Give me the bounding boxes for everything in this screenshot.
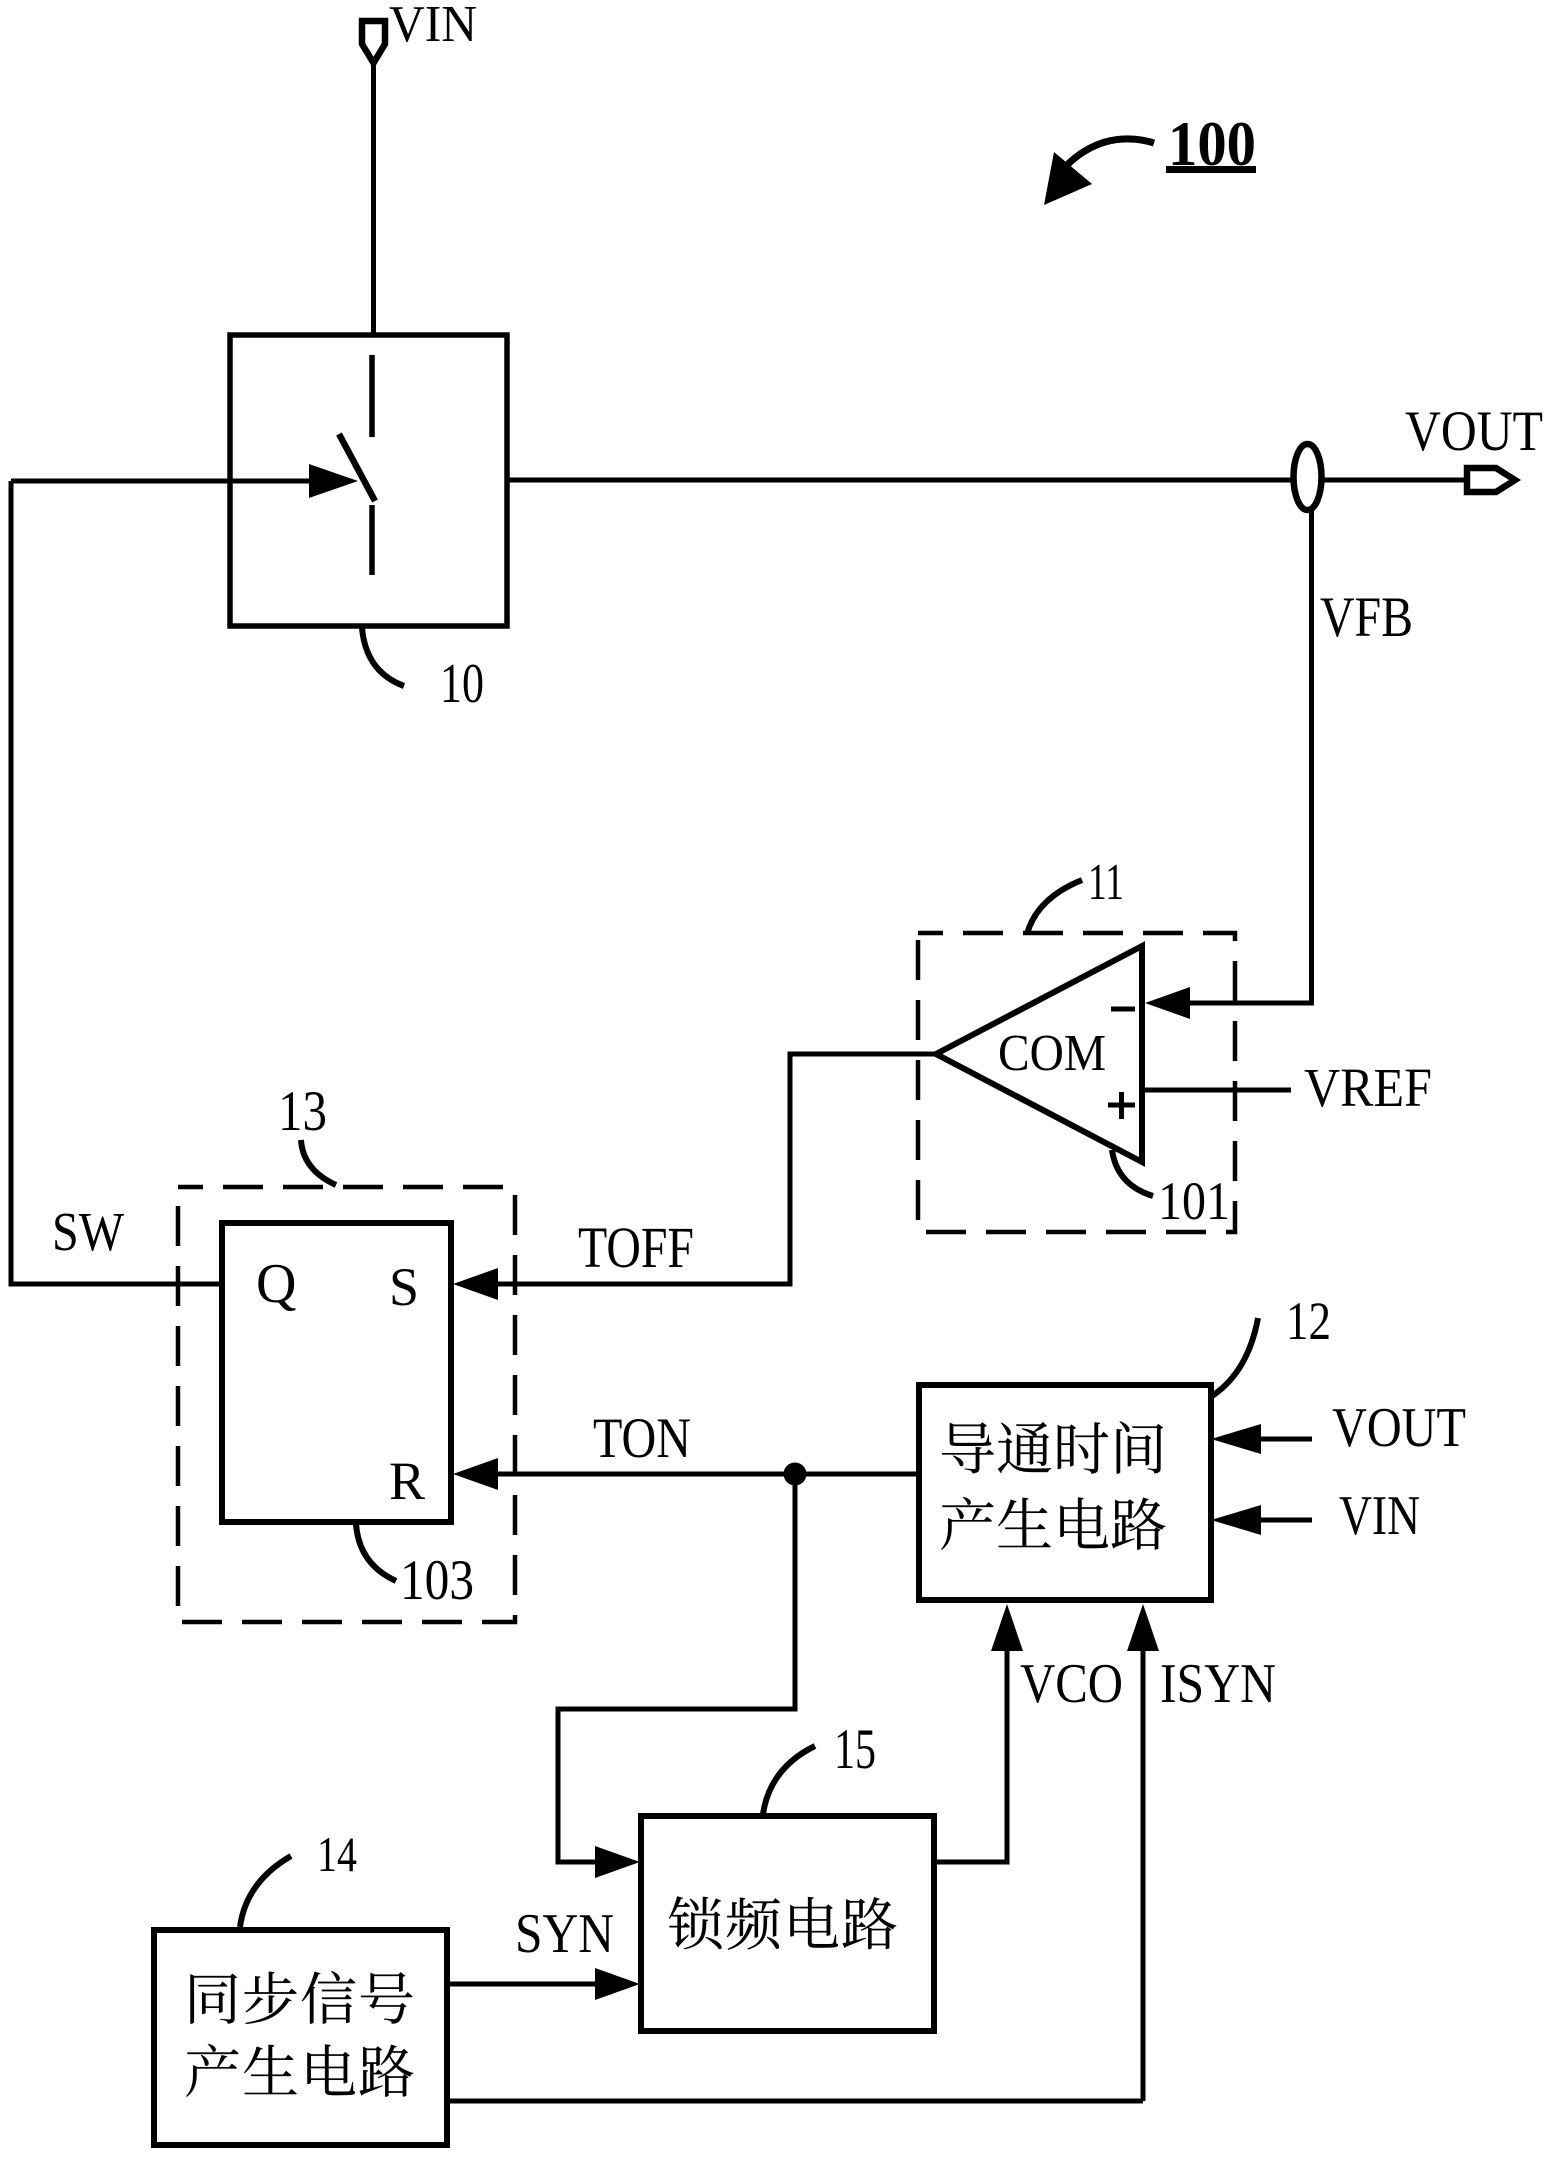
svg-text:R: R xyxy=(389,1451,425,1511)
text 锁频电路 xyxy=(669,1896,897,1950)
text line 同步信号 xyxy=(190,1971,412,2024)
arrowhead VOUT into 12 xyxy=(1211,1424,1261,1454)
arrowhead into minus input xyxy=(1145,987,1190,1019)
wire TON tap to 15 xyxy=(558,1474,795,1862)
junction dot on TON xyxy=(784,1463,807,1486)
minus sign xyxy=(1111,1007,1135,1012)
svg-text:SW: SW xyxy=(52,1201,124,1262)
label 101 leader curve xyxy=(1112,1150,1153,1196)
arrowhead into switch xyxy=(309,464,358,498)
svg-text:VREF: VREF xyxy=(1304,1057,1432,1118)
text line 产生电路 (block 12) xyxy=(941,1497,1165,1550)
wire node to VOUT terminal xyxy=(1321,478,1468,483)
svg-text:COM: COM xyxy=(998,1025,1106,1082)
svg-text:101: 101 xyxy=(1158,1171,1230,1231)
wire SYN from 14 to 15 xyxy=(447,1982,596,1987)
svg-text:VIN: VIN xyxy=(1339,1485,1420,1547)
arrowhead into R xyxy=(453,1458,498,1490)
wire ISYN vertical xyxy=(1141,1650,1146,2101)
svg-text:VOUT: VOUT xyxy=(1332,1397,1466,1459)
wire VREF xyxy=(1142,1088,1291,1093)
svg-text:SYN: SYN xyxy=(515,1903,614,1965)
underline of 100 xyxy=(1166,166,1256,173)
svg-text:ISYN: ISYN xyxy=(1160,1653,1276,1715)
arrowhead VIN into 12 xyxy=(1211,1505,1261,1535)
wire VFB vertical xyxy=(1309,508,1314,1003)
sync signal block 14 xyxy=(154,1930,447,2145)
svg-text:103: 103 xyxy=(400,1549,474,1612)
label 15 leader curve xyxy=(763,1746,815,1814)
wire SW into switch xyxy=(11,479,311,484)
label 10 leader curve xyxy=(362,628,404,686)
wire VCO from 15 to 12 xyxy=(934,1650,1007,1862)
svg-text:10: 10 xyxy=(440,653,484,715)
curved arrow of 100 xyxy=(1066,139,1154,166)
switch symbol top contact xyxy=(369,355,375,437)
svg-text:TOFF: TOFF xyxy=(578,1215,694,1280)
on-time generation block 12 xyxy=(919,1385,1211,1600)
label 11 leader curve xyxy=(1027,880,1082,934)
svg-text:VIN: VIN xyxy=(389,0,477,53)
label 12 leader curve xyxy=(1212,1318,1258,1396)
arrowhead ISYN into 12 xyxy=(1127,1604,1159,1651)
svg-text:VOUT: VOUT xyxy=(1405,400,1543,463)
wire switch to output node xyxy=(507,478,1294,483)
svg-text:14: 14 xyxy=(317,1826,357,1882)
svg-text:VFB: VFB xyxy=(1320,586,1413,649)
svg-text:15: 15 xyxy=(834,1718,876,1781)
switch block 10 xyxy=(230,335,507,626)
switch blade xyxy=(339,434,375,501)
dashed block 11 xyxy=(918,933,1235,1232)
wire VFB to comparator minus xyxy=(1188,1001,1314,1006)
arrowhead SYN into 15 xyxy=(595,1968,640,2000)
comparator COM triangle xyxy=(936,946,1142,1162)
svg-text:TON: TON xyxy=(593,1407,691,1470)
svg-text:VCO: VCO xyxy=(1020,1653,1123,1715)
label 14 leader curve xyxy=(240,1856,291,1927)
label 103 leader curve xyxy=(356,1524,396,1581)
frequency-lock block 15 xyxy=(641,1816,934,2031)
wire VIN to switch box xyxy=(371,63,376,335)
terminal pin VOUT xyxy=(1467,468,1515,492)
text line 导通时间 xyxy=(942,1421,1163,1474)
svg-text:13: 13 xyxy=(278,1080,327,1143)
svg-text:Q: Q xyxy=(256,1253,296,1315)
text line 产生电路 (block 14) xyxy=(186,2044,413,2097)
RS flip-flop box xyxy=(222,1223,451,1522)
arrowhead into S xyxy=(453,1268,498,1300)
wire VIN input to 12 xyxy=(1260,1518,1312,1523)
arrowhead into 15 upper input xyxy=(595,1846,640,1878)
svg-text:11: 11 xyxy=(1088,854,1124,911)
node ellipse on VOUT line xyxy=(1294,444,1322,510)
terminal pin VIN xyxy=(362,21,385,63)
dashed block 13 xyxy=(178,1187,515,1622)
svg-text:12: 12 xyxy=(1286,1291,1331,1351)
plus sign xyxy=(1108,1103,1135,1108)
arrowhead VCO into 12 xyxy=(991,1604,1023,1651)
wire SW from switch to Q xyxy=(11,481,222,1284)
label 13 leader curve xyxy=(301,1140,336,1185)
wire VOUT input to 12 xyxy=(1260,1437,1312,1442)
switch symbol bottom contact xyxy=(369,505,375,575)
wire TON from block 12 to R xyxy=(497,1472,919,1477)
wire ISYN from 14 bottom xyxy=(447,2099,1143,2104)
svg-text:S: S xyxy=(389,1257,419,1317)
wire COM output xyxy=(497,1054,936,1284)
